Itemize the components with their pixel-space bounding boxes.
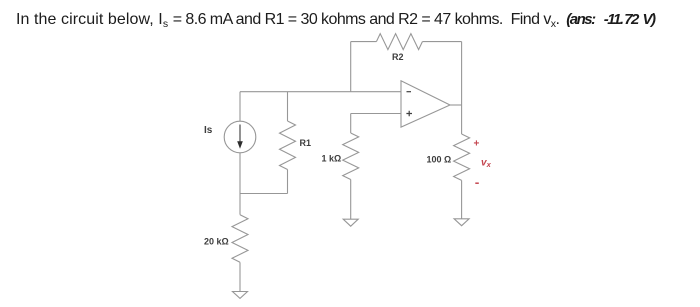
- svg-text:+: +: [474, 138, 480, 149]
- svg-text:1 kΩ: 1 kΩ: [322, 154, 342, 164]
- svg-text:100 Ω: 100 Ω: [427, 155, 452, 165]
- svg-text:R1: R1: [300, 138, 312, 148]
- svg-text:20 kΩ: 20 kΩ: [204, 237, 229, 247]
- svg-text:R2: R2: [392, 52, 404, 62]
- svg-text:Is: Is: [204, 125, 213, 136]
- svg-text:vx: vx: [481, 158, 492, 170]
